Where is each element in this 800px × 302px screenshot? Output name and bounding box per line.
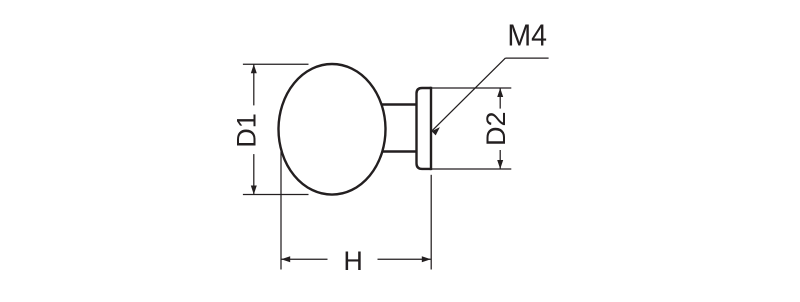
svg-text:H: H (343, 246, 363, 276)
svg-text:D2: D2 (481, 112, 511, 147)
svg-text:D1: D1 (232, 113, 262, 148)
svg-text:M4: M4 (507, 18, 547, 52)
